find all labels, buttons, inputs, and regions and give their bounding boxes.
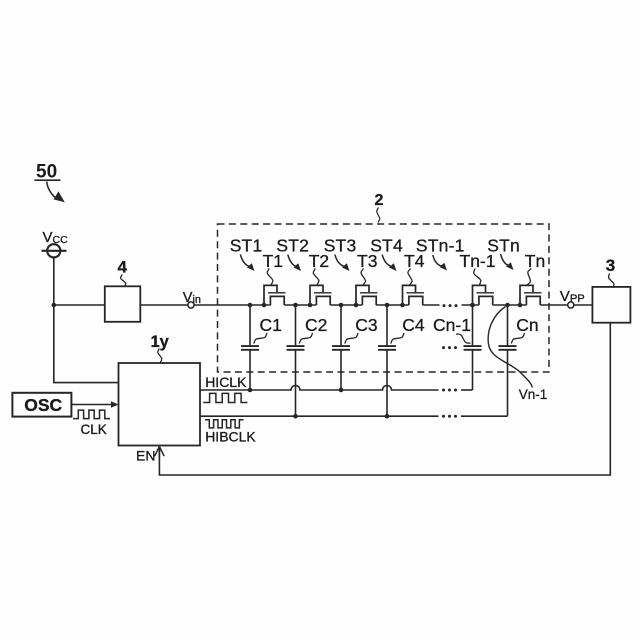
waveform HIBCLK (205, 420, 244, 428)
svg-text:C2: C2 (305, 315, 327, 335)
wire pump line segment (493, 304, 527, 306)
junction gate of T4 on line (400, 303, 405, 308)
svg-text:ST2: ST2 (276, 235, 309, 255)
junction C2 to HIBCLK (293, 414, 298, 419)
node VPP terminal circle (568, 302, 574, 308)
svg-text:C3: C3 (355, 315, 377, 335)
wire HIBCLK rail right segment to Cn (461, 415, 508, 417)
leader arrow ST4 (382, 255, 396, 272)
leader for C2 (299, 333, 312, 344)
capacitor C3 (332, 305, 350, 390)
leader arrow STn (501, 254, 514, 270)
svg-text:1y: 1y (151, 333, 170, 351)
capacitor Cn (499, 305, 517, 416)
wire pump line segment (330, 304, 362, 306)
capacitor C1 (241, 305, 259, 390)
svg-text:STn: STn (487, 235, 520, 255)
wire Vcc node to block 4 (54, 304, 105, 306)
capacitor Cn-1 (464, 305, 482, 390)
svg-text:Vn-1: Vn-1 (519, 387, 548, 402)
transistor T1 (diode-connected MOSFET) (264, 285, 286, 305)
oscillator block OSC (12, 393, 71, 417)
junction C1 to HICLK (248, 388, 253, 393)
ellipsis HIBCLK rail (442, 415, 457, 418)
junction C3 to HICLK (339, 388, 344, 393)
leader arrow ST1 (240, 255, 254, 272)
leader for C4 (391, 333, 404, 344)
svg-text:50: 50 (36, 162, 57, 183)
wire OSC to 1y (CLK) (71, 404, 115, 406)
leader for T1 (267, 269, 273, 286)
wire pump line segment (540, 304, 592, 306)
svg-text:4: 4 (118, 257, 128, 276)
leader for 2 (377, 208, 380, 223)
junction C4 to HIBCLK (385, 414, 390, 419)
leader for 1y (158, 349, 162, 363)
wire HICLK rail with hops over C2 and C4 (200, 386, 439, 391)
control block 1y (119, 363, 201, 446)
svg-text:C1: C1 (260, 315, 282, 335)
svg-text:ST3: ST3 (324, 235, 357, 255)
junction Cn top plate node (505, 303, 510, 308)
leader curve Vn-1 from node between Tn-1 and Tn (488, 307, 532, 388)
wire HIBCLK rail (200, 415, 439, 417)
transistor Tn-1 (diode-connected MOSFET) (473, 285, 495, 305)
wire Vcc to control block 1y (54, 258, 119, 383)
leader for T4 (408, 269, 412, 286)
figure reference 50 (35, 162, 61, 183)
svg-text:Cn: Cn (516, 315, 538, 335)
wire pump line segment (376, 304, 409, 306)
svg-text:OSC: OSC (24, 395, 62, 415)
svg-text:ST4: ST4 (370, 235, 403, 255)
leader for T2 (313, 269, 319, 286)
svg-text:Cn-1: Cn-1 (433, 315, 471, 335)
junction C3 top plate node (339, 303, 344, 308)
ellipsis capacitor row (442, 346, 457, 349)
svg-text:CLK: CLK (81, 422, 107, 437)
wire pump line segment (423, 304, 440, 306)
wire pump line segment (284, 304, 316, 306)
dashed block 2 (charge pump stages) (218, 224, 550, 372)
junction gate of T3 on line (354, 303, 359, 308)
leader for Cn (511, 333, 524, 344)
leader arrow ST3 (335, 255, 350, 272)
arrowhead EN into 1y (155, 447, 165, 459)
wire block 4 to pump input, node Vin (140, 304, 270, 306)
leader for Tn (527, 269, 531, 286)
arrowhead CLK into 1y (111, 401, 119, 407)
junction gate of T1 on line (262, 303, 267, 308)
junction gate of Tn-1 on line (470, 303, 475, 308)
waveform HICLK (203, 393, 247, 402)
leader arrow STn-1 (433, 255, 447, 271)
node junction Vcc line / Vin line (52, 303, 57, 308)
block 3 (load) (592, 287, 630, 323)
svg-text:2: 2 (375, 192, 384, 209)
capacitor C4 (378, 305, 396, 416)
svg-text:Tn: Tn (525, 251, 545, 271)
ellipsis on pump line (443, 304, 458, 307)
transistor T4 (diode-connected MOSFET) (403, 285, 425, 305)
svg-text:HIBCLK: HIBCLK (205, 429, 256, 445)
block 4 (regulator) (105, 286, 141, 322)
svg-text:ST1: ST1 (230, 235, 263, 255)
junction C2 top plate node (293, 303, 298, 308)
wire HICLK rail right segment to Cn-1 (461, 389, 473, 391)
leader for C1 (254, 333, 267, 344)
arrow for 50 (47, 182, 65, 203)
capacitor C2 (287, 305, 305, 416)
leader arrow ST2 (288, 255, 301, 272)
leader for T3 (361, 269, 366, 286)
leader for Tn-1 (474, 269, 481, 286)
junction gate of Tn on line (518, 303, 523, 308)
svg-text:STn-1: STn-1 (416, 235, 465, 255)
ellipsis HICLK rail (442, 389, 457, 392)
wire pump line segment (462, 304, 480, 306)
leader for C3 (345, 333, 358, 344)
power terminal Vcc (42, 244, 67, 257)
junction gate of T2 on line (308, 303, 313, 308)
leader for 4 (121, 275, 126, 288)
junction C4 top plate node (385, 303, 390, 308)
svg-text:3: 3 (606, 256, 615, 275)
transistor Tn (diode-connected MOSFET) (520, 285, 542, 305)
waveform CLK (73, 410, 110, 419)
svg-text:EN: EN (136, 447, 155, 463)
node Vin terminal circle (188, 302, 194, 308)
transistor T3 (diode-connected MOSFET) (356, 285, 378, 305)
wire EN feedback from block 3 (159, 323, 610, 475)
svg-text:C4: C4 (402, 315, 425, 335)
svg-text:HICLK: HICLK (205, 374, 247, 390)
leader for Cn-1 (456, 334, 471, 343)
junction Cn-1 top plate node (470, 303, 475, 308)
junction C1 top plate node (248, 303, 253, 308)
leader for 3 (609, 274, 614, 289)
transistor T2 (diode-connected MOSFET) (310, 285, 332, 305)
